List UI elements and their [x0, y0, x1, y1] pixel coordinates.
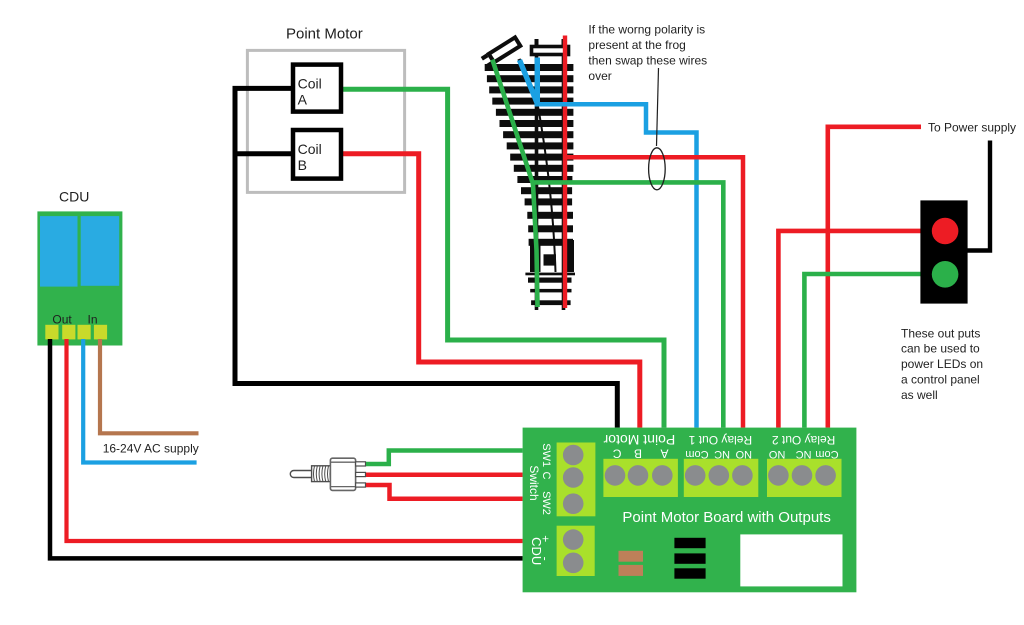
toggle switch pin 1: [356, 462, 366, 466]
wire red power supply to relay out 2 Com: [828, 127, 921, 428]
wire red signal lamp to relay out 2 NO: [778, 231, 932, 428]
wire red frog rail: [563, 36, 567, 309]
svg-text:CDU: CDU: [59, 188, 89, 204]
wire green stock rail to relay out 1 NC: [492, 60, 723, 428]
svg-text:B: B: [634, 447, 642, 461]
resistor 2: [619, 565, 644, 576]
wire blue CDU in AC supply: [83, 339, 196, 463]
relay white box: [740, 534, 842, 586]
svg-text:Coil: Coil: [298, 141, 322, 157]
svg-text:Relay Out 2: Relay Out 2: [772, 433, 836, 447]
track angled end box: [482, 37, 521, 66]
svg-text:as well: as well: [901, 388, 938, 402]
svg-text:C: C: [540, 472, 552, 480]
svg-text:Point Motor Board with Outputs: Point Motor Board with Outputs: [622, 509, 830, 526]
track buffer block right: [567, 240, 575, 272]
signal green lamp: [932, 261, 959, 288]
svg-text:NC: NC: [714, 448, 730, 460]
svg-text:Coil: Coil: [298, 75, 322, 91]
terminal circles CDU: [563, 529, 584, 573]
wire red switch C: [366, 472, 523, 477]
wire black common CDU to coils: [235, 88, 617, 427]
svg-text:C: C: [613, 447, 622, 461]
svg-text:If the worng polarity is: If the worng polarity is: [588, 23, 705, 37]
wire red switch SW2: [366, 485, 523, 499]
svg-text:then swap these wires: then swap these wires: [588, 54, 707, 68]
toggle switch body: [330, 458, 355, 490]
svg-text:Switch: Switch: [527, 465, 541, 500]
CDU terminal 4: [94, 325, 107, 340]
wire brown CDU in AC supply: [100, 339, 199, 433]
CDU terminal 1: [45, 325, 58, 340]
toggle switch bushing: [312, 466, 331, 482]
resistor 1: [619, 551, 644, 562]
CDU terminal 3: [78, 325, 91, 340]
coil A: [293, 65, 341, 112]
terminal block point motor: [603, 459, 678, 497]
track main rails: [537, 56, 564, 310]
wire green signal lamp to relay out 2 NC: [804, 274, 932, 428]
terminal block switch: [557, 443, 596, 517]
point motor enclosure: [247, 50, 404, 192]
svg-text:CDU: CDU: [529, 537, 544, 565]
terminal block CDU: [557, 526, 595, 576]
svg-text:A: A: [298, 92, 308, 108]
track top end box: [532, 39, 569, 55]
toggle switch lever: [290, 471, 314, 478]
terminal block relay out 2: [767, 459, 842, 497]
terminal circles relay out 1: [685, 465, 753, 486]
terminal circles relay out 2: [768, 465, 836, 486]
svg-text:To Power supply: To Power supply: [928, 121, 1016, 135]
CDU capacitor right: [81, 216, 120, 286]
svg-text:Point Motor: Point Motor: [286, 25, 363, 42]
annotation polarity note: [588, 23, 707, 84]
svg-text:16-24V AC supply: 16-24V AC supply: [103, 442, 199, 456]
wire green coil A to board A: [341, 89, 664, 427]
svg-text:Point Motor: Point Motor: [603, 432, 675, 448]
svg-text:Relay Out 1: Relay Out 1: [688, 433, 752, 447]
wire red frog to relay out 1 NO: [565, 157, 743, 427]
svg-text:B: B: [298, 157, 307, 173]
svg-text:a control panel: a control panel: [901, 373, 980, 387]
IC bar 2: [674, 553, 705, 563]
wire blue point rails to relay out 1 Com: [520, 58, 538, 104]
annotation leader line: [657, 68, 659, 146]
wire black CDU out to board: [50, 339, 523, 558]
note outputs text: [901, 326, 983, 402]
IC bar 1: [674, 538, 705, 548]
wire red CDU out to board: [67, 339, 523, 541]
svg-text:In: In: [88, 313, 98, 327]
toggle switch pin 3: [356, 483, 366, 487]
coil B: [293, 130, 341, 179]
CDU unit body: [37, 211, 122, 345]
track diverging rails: [492, 59, 555, 272]
track buffer thick bar: [528, 278, 572, 283]
svg-text:over: over: [588, 69, 611, 83]
track buffer thin bar: [525, 273, 575, 276]
svg-text:Com: Com: [815, 448, 838, 460]
svg-text:SW1: SW1: [540, 443, 552, 467]
terminal circles point motor: [605, 465, 673, 486]
signal red lamp: [932, 218, 959, 245]
terminal circles switch: [563, 445, 584, 514]
track buffer block left: [530, 245, 541, 272]
svg-text:NO: NO: [735, 448, 752, 460]
CDU capacitor left: [40, 216, 78, 287]
svg-text:power LEDs on: power LEDs on: [901, 357, 983, 371]
terminal block relay out 1: [684, 459, 759, 497]
svg-text:These out puts: These out puts: [901, 326, 980, 340]
svg-text:Com: Com: [685, 448, 708, 460]
svg-text:Out: Out: [52, 313, 72, 327]
wire red coil B to board B: [341, 154, 640, 428]
svg-text:NO: NO: [768, 448, 785, 460]
annotation ellipse marker: [649, 148, 666, 190]
IC bar 3: [674, 568, 705, 578]
track turnout sleepers: [485, 64, 574, 305]
CDU terminal 2: [62, 325, 75, 340]
point motor board: [523, 428, 857, 593]
toggle switch pin 2: [356, 472, 366, 476]
signal head: [920, 200, 967, 303]
svg-text:A: A: [660, 447, 668, 461]
svg-text:can be used to: can be used to: [901, 342, 980, 356]
svg-text:SW2: SW2: [540, 491, 552, 515]
wire black power supply to signal: [966, 141, 990, 251]
svg-text:NC: NC: [796, 448, 812, 460]
track buffer block square: [544, 254, 557, 265]
wire green switch SW1: [366, 451, 523, 465]
svg-text:present at the frog: present at the frog: [588, 38, 685, 52]
